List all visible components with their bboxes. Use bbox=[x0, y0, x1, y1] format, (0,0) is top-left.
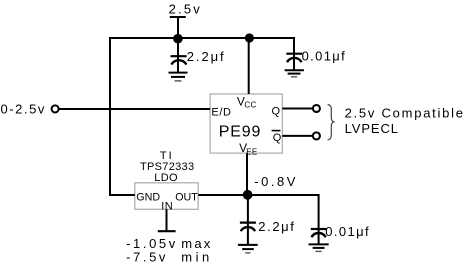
svg-text:LDO: LDO bbox=[154, 172, 178, 184]
svg-text:0-2.5v: 0-2.5v bbox=[1, 101, 46, 116]
svg-text:-0.8V: -0.8V bbox=[254, 174, 298, 189]
svg-text:OUT: OUT bbox=[175, 191, 198, 203]
svg-text:-7.5v: -7.5v bbox=[126, 250, 168, 265]
svg-text:0.01μf: 0.01μf bbox=[325, 224, 370, 239]
svg-text:EE: EE bbox=[246, 148, 257, 157]
svg-text:LVPECL: LVPECL bbox=[345, 121, 399, 136]
svg-text:PE99: PE99 bbox=[219, 124, 261, 141]
svg-text:Q: Q bbox=[273, 132, 282, 144]
svg-text:Q: Q bbox=[272, 105, 281, 117]
svg-text:0.01μf: 0.01μf bbox=[302, 48, 347, 63]
svg-text:E/D: E/D bbox=[211, 106, 231, 118]
svg-text:2.5v Compatible: 2.5v Compatible bbox=[345, 106, 465, 121]
svg-text:IN: IN bbox=[161, 200, 173, 212]
svg-text:GND: GND bbox=[136, 191, 160, 203]
svg-text:CC: CC bbox=[244, 101, 256, 110]
svg-text:2.2μf: 2.2μf bbox=[187, 49, 226, 64]
svg-text:2.5v: 2.5v bbox=[169, 2, 202, 17]
svg-text:2.2μf: 2.2μf bbox=[258, 219, 295, 234]
svg-text:min: min bbox=[181, 250, 212, 265]
